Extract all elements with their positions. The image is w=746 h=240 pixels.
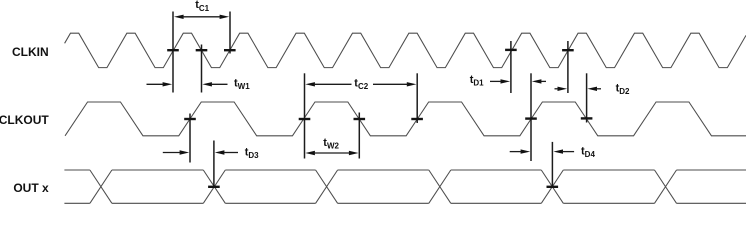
tick OUT x transition @214 <box>208 186 220 188</box>
tick CLKIN rising edge @230 <box>224 49 236 51</box>
dimension tD2 left arrow <box>558 87 568 91</box>
dimension tW1 left arrow <box>163 82 173 86</box>
svg-text:CLKIN: CLKIN <box>12 45 49 59</box>
reference line tD2 left (CLKIN rising edge) <box>567 41 569 93</box>
OUT x bus waveform <box>64 169 90 171</box>
dimension tD3 right arrow <box>215 150 225 154</box>
dimension tD3 left arrow <box>180 150 190 154</box>
tick CLKIN rising edge @173 <box>167 49 179 51</box>
reference line tD3 left (CLKOUT rising edge) <box>189 114 191 163</box>
reference line tD2 right (CLKOUT falling edge) <box>586 73 588 122</box>
tick CLKOUT rising edge @417 <box>411 118 423 120</box>
reference line tD1 right / tD4 left (CLKOUT rising edge) <box>530 73 532 161</box>
tick CLKOUT rising edge @190 <box>184 118 196 120</box>
tick CLKIN rising edge @568 <box>562 49 574 51</box>
dimension tD4 left arrow <box>521 149 531 153</box>
dimension tC2 arrow (double headed, split by label) <box>305 82 315 86</box>
reference line tC2 left / tW2 left (CLKOUT rising edge) <box>304 73 306 158</box>
dimension tW1 right arrow <box>202 82 212 86</box>
reference line tD1 left (CLKIN rising edge) <box>510 41 512 93</box>
CLKIN waveform <box>65 33 746 67</box>
dimension tW2 arrow (double headed) <box>305 151 315 155</box>
reference line tW2 right (CLKOUT falling edge) <box>358 113 360 159</box>
svg-text:CLKOUT: CLKOUT <box>0 113 49 127</box>
tick CLKOUT falling edge @359.3 <box>354 118 366 120</box>
tick OUT x transition @552 <box>547 186 559 188</box>
dimension tD1 left arrow <box>501 79 511 83</box>
reference line tC1 right (CLKIN rising edge 2) <box>229 12 231 54</box>
reference line tW1 right (CLKIN falling edge) <box>201 45 203 93</box>
dimension tD2 right arrow <box>587 87 597 91</box>
reference line tD3 right (OUT x transition) <box>213 141 215 189</box>
tick CLKOUT falling edge @586.6 <box>581 117 593 119</box>
CLKOUT waveform <box>65 102 746 136</box>
reference line tC1 left / tW1 left (CLKIN rising edge 1) <box>172 12 174 93</box>
tick CLKOUT rising edge @531 <box>525 117 537 119</box>
tick CLKIN rising edge @511 <box>505 49 517 51</box>
reference line tC2 right (CLKOUT rising edge) <box>416 73 418 123</box>
dimension tC1 arrow (double headed) <box>174 15 184 19</box>
reference line tD4 right (OUT x transition) <box>551 142 553 188</box>
tick CLKIN falling edge @201.5 <box>196 49 208 51</box>
svg-text:OUT x: OUT x <box>13 181 49 195</box>
dimension tD1 right arrow <box>532 79 542 83</box>
dimension tD4 right arrow <box>553 149 563 153</box>
tick CLKOUT rising edge @304.5 <box>299 118 311 120</box>
